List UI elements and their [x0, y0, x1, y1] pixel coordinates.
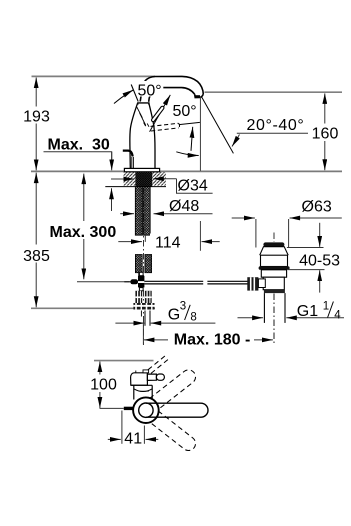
faucet centerline	[142, 188, 144, 276]
dimension 100	[87, 362, 120, 409]
front view inner circle	[139, 403, 153, 417]
dimension 40-53	[287, 223, 340, 293]
spout aerator end	[195, 95, 200, 97]
spray direction ray	[201, 97, 233, 154]
arc arrow right (lower 50 deg)	[176, 152, 198, 156]
body shading strokes	[137, 107, 149, 127]
dimension O63	[232, 199, 342, 248]
label 20-40 deg with leader	[232, 117, 308, 147]
svg-text:G1: G1	[297, 303, 318, 320]
extension line from dashed lever	[179, 122, 200, 124]
supply hoses upper section	[135, 187, 150, 235]
dimension Max. 300	[48, 174, 130, 282]
threaded shank	[135, 172, 152, 187]
drain pop-up cap	[263, 242, 284, 246]
label 50 deg upper background	[135, 81, 163, 97]
deck cross-section hatching left	[124, 172, 136, 185]
svg-text:Ø63: Ø63	[302, 199, 332, 216]
arrow up to shank bottom (max 30 lower)	[111, 188, 113, 211]
dimension Max. 30	[44, 136, 112, 170]
dimension O34	[111, 177, 213, 195]
faucet body: closed lever reference line	[131, 85, 138, 102]
pop-up rod junction at faucet	[124, 272, 144, 291]
dimension Max. 180	[143, 323, 273, 349]
front view dashed arm down	[150, 411, 199, 453]
base flange	[124, 168, 159, 171]
vertical reference line below outlet	[199, 96, 201, 171]
svg-text:4: 4	[334, 309, 341, 321]
drain adjusting knob	[247, 277, 258, 290]
arc arrow up (lower 50 deg)	[191, 127, 193, 151]
svg-text:G: G	[168, 307, 180, 324]
svg-text:100: 100	[90, 377, 117, 394]
dimension 41	[108, 411, 159, 448]
svg-text:385: 385	[23, 248, 50, 265]
svg-text:Ø48: Ø48	[169, 198, 199, 215]
dimension G3/8	[115, 300, 215, 326]
pull rod knob at faucet back	[123, 151, 133, 157]
dimension 193	[21, 78, 52, 171]
horizontal pop-up rod	[144, 281, 247, 284]
front view outer circle	[133, 397, 159, 423]
front view body	[131, 385, 152, 399]
drain tailpipe	[263, 293, 265, 323]
label 50 deg lower	[172, 103, 201, 120]
svg-text:50°: 50°	[173, 103, 197, 120]
front view spout arm solid	[146, 403, 208, 417]
outlet height reference line	[205, 91, 343, 93]
dimension 114	[118, 234, 219, 252]
lever axis line with 50 deg arrow	[150, 97, 170, 132]
drain coupling dark band	[264, 290, 285, 293]
neck top line	[138, 103, 149, 105]
svg-text:Max. 300: Max. 300	[50, 224, 117, 241]
deck cross-section hatching right	[152, 172, 166, 185]
dimension 385	[20, 173, 53, 308]
hose end connectors G3/8	[133, 291, 154, 310]
front view rod stub	[100, 407, 124, 409]
drain body below seal	[261, 270, 286, 277]
svg-text:Ø34: Ø34	[178, 177, 208, 194]
front view top tick line	[94, 360, 154, 362]
arc arrow to lever (50 deg upper)	[114, 90, 133, 104]
dimension G1 1/4	[238, 301, 345, 322]
svg-text:40-53: 40-53	[299, 253, 340, 270]
svg-text:Max. 180 -: Max. 180 -	[174, 332, 250, 349]
dimension 160	[310, 93, 340, 170]
cap top detail	[143, 370, 149, 373]
front view dashed arm up	[150, 367, 199, 409]
svg-text:50°: 50°	[138, 83, 162, 100]
svg-text:114: 114	[155, 234, 181, 251]
dashed lever raised position	[148, 355, 170, 374]
drain centerline	[273, 233, 275, 243]
shank bottom line	[105, 186, 166, 188]
dashed lever (open position)	[151, 123, 180, 131]
drain upper flare	[260, 247, 289, 256]
supply hoses lower section	[135, 255, 151, 277]
faucet body outline	[130, 103, 138, 168]
solid lever rod	[151, 106, 165, 123]
svg-text:20°-40°: 20°-40°	[247, 117, 305, 134]
bottom reference line (hose ends)	[31, 307, 155, 309]
deck / counter line	[31, 170, 342, 172]
drain rubber seal	[259, 266, 290, 270]
svg-text:41: 41	[124, 431, 142, 448]
svg-text:1: 1	[323, 301, 329, 313]
svg-text:193: 193	[23, 108, 50, 125]
svg-text:3: 3	[180, 300, 186, 312]
reference tick line top (spout height)	[32, 75, 156, 77]
svg-text:Max. 30: Max. 30	[48, 136, 110, 153]
dimension O48	[120, 196, 212, 215]
svg-text:8: 8	[190, 312, 196, 324]
faucet spout	[140, 76, 203, 101]
svg-text:160: 160	[312, 126, 339, 143]
front view lever and cartridge cap	[131, 373, 165, 385]
drain upper cylinder	[261, 255, 288, 266]
